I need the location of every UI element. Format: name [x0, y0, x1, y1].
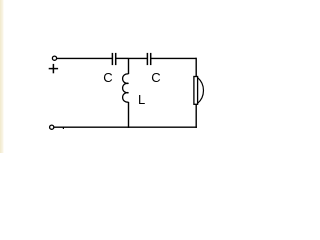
polarity label + [49, 64, 58, 73]
inductor L: coil [123, 74, 129, 102]
svg-text:C: C [151, 70, 160, 85]
wire: top-right corner down to speaker [195, 58, 197, 77]
wire: speaker to bottom-right corner [195, 104, 197, 128]
inductor L: bottom lead to node B [128, 102, 130, 128]
junction tick on bottom wire [62, 127, 64, 129]
terminal T2 (- input) [50, 125, 54, 129]
wire top: terminal to C1 [57, 57, 113, 59]
svg-text:C: C [103, 70, 112, 85]
terminal T1 (+ input) [52, 56, 56, 60]
wire: node A to C2 [129, 57, 148, 59]
wire bottom: right corner to node B [129, 126, 197, 128]
wire: C1 to node A [116, 57, 129, 59]
wire: C2 to top-right corner [151, 57, 197, 59]
capacitor C2 [147, 53, 150, 65]
speaker LS1 [194, 77, 204, 105]
capacitor C1 [112, 53, 115, 65]
inductor L: top lead from node A [128, 58, 130, 74]
wire bottom: node B to terminal T2 [54, 126, 129, 128]
svg-text:L: L [138, 92, 145, 107]
